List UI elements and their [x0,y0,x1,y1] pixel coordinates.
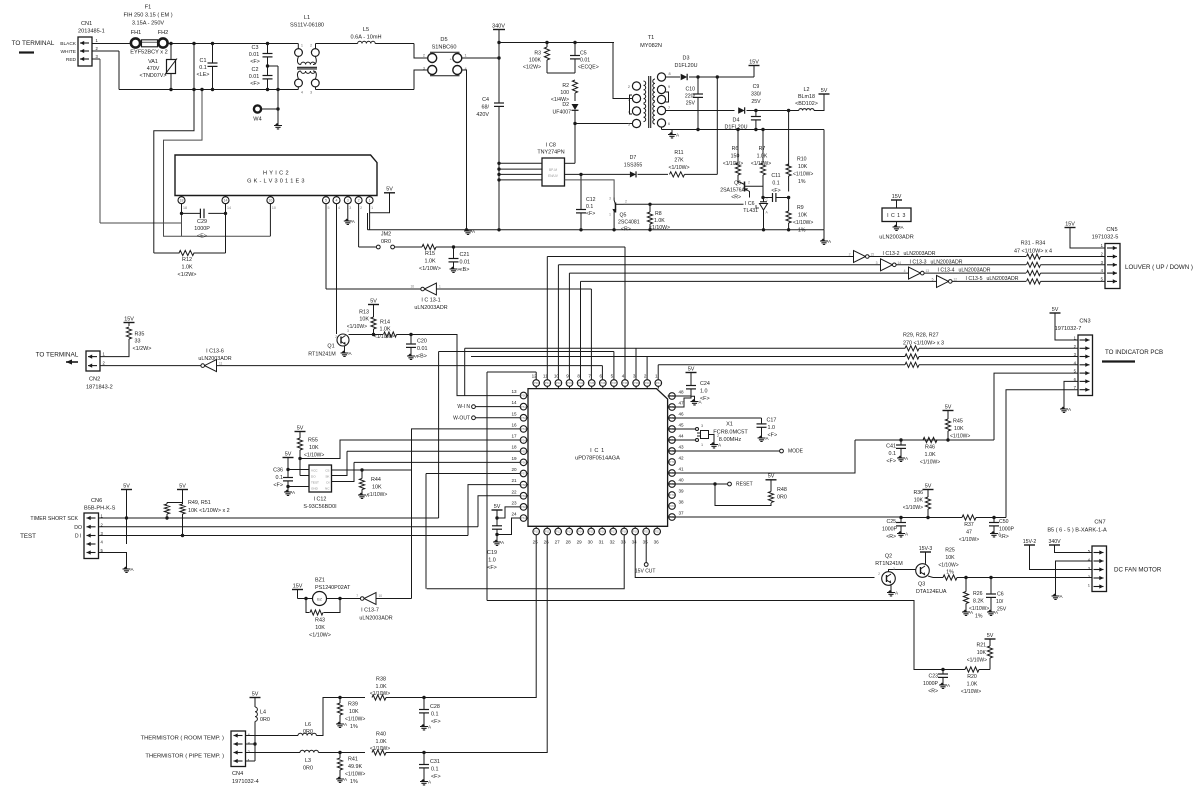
svg-text:5V: 5V [768,474,775,480]
svg-text:8: 8 [577,374,580,379]
svg-text:10: 10 [268,199,272,203]
svg-text:P14: P14 [578,530,584,534]
svg-text:<F>: <F> [487,565,497,571]
svg-text:W-I N: W-I N [457,404,470,410]
svg-text:0.1: 0.1 [276,475,284,481]
svg-text:R8: R8 [655,211,662,217]
svg-text:P15: P15 [589,530,595,534]
svg-text:0.1: 0.1 [431,712,439,718]
svg-text:P11: P11 [545,530,550,534]
svg-text:2013485-1: 2013485-1 [78,29,105,35]
svg-text:P20: P20 [644,530,650,534]
svg-text:3: 3 [876,261,878,265]
svg-text:P21: P21 [655,530,661,534]
svg-text:VA1: VA1 [148,59,158,65]
svg-text:10: 10 [379,594,383,598]
svg-text:P59: P59 [521,494,527,498]
svg-text:10K: 10K [954,426,964,432]
svg-text:40: 40 [678,478,684,483]
svg-text:22: 22 [511,489,517,494]
svg-text:3: 3 [701,424,703,428]
svg-text:<E>: <E> [197,234,207,240]
svg-text:R25: R25 [945,548,955,554]
svg-text:D7: D7 [630,155,637,161]
svg-text:L6: L6 [305,722,311,728]
svg-text:C29: C29 [197,219,207,225]
svg-text:I C 13-1: I C 13-1 [421,298,440,304]
svg-text:1.0K: 1.0K [379,327,390,333]
svg-text:14: 14 [227,206,231,210]
svg-text:<1/10W>: <1/10W> [304,453,324,459]
svg-text:P51: P51 [521,405,527,409]
svg-text:43: 43 [678,445,684,450]
svg-text:LOUVER ( UP / DOWN ): LOUVER ( UP / DOWN ) [1125,264,1193,271]
svg-text:P38: P38 [622,381,628,385]
svg-text:2: 2 [878,572,880,576]
svg-text:Q1: Q1 [327,344,334,350]
svg-text:0.01: 0.01 [417,346,428,352]
svg-text:S-93C56BD0I: S-93C56BD0I [303,504,336,510]
svg-text:1.0: 1.0 [488,558,496,564]
svg-text:8.2K: 8.2K [973,599,984,605]
svg-text:32: 32 [610,540,616,545]
svg-text:4: 4 [301,91,303,95]
svg-text:1SS355: 1SS355 [624,163,643,169]
svg-text:W-OUT: W-OUT [453,415,470,421]
svg-text:1%: 1% [798,228,806,234]
svg-text:P56: P56 [521,461,527,465]
svg-text:42: 42 [678,456,684,461]
svg-text:B5B-PH-K-S: B5B-PH-K-S [84,506,116,512]
svg-text:<1/10W>: <1/10W> [668,165,689,171]
svg-text:1971032-4: 1971032-4 [232,779,259,785]
svg-text:uLN2003ADR: uLN2003ADR [959,268,991,274]
svg-text:270 <1/10W> x 3: 270 <1/10W> x 3 [903,341,944,347]
svg-text:C21: C21 [460,252,470,258]
svg-text:10: 10 [272,206,276,210]
svg-text:BLACK: BLACK [60,41,77,47]
svg-text:TNY274PN: TNY274PN [537,150,564,156]
svg-text:5V: 5V [285,451,292,457]
svg-text:1.0K: 1.0K [967,682,978,688]
svg-text:27K: 27K [674,158,684,164]
svg-text:2: 2 [628,85,630,89]
svg-text:W4: W4 [253,117,261,123]
svg-text:10K: 10K [945,555,955,561]
svg-text:35: 35 [643,540,649,545]
svg-text:15: 15 [871,253,875,257]
svg-text:<R>: <R> [999,534,1009,540]
svg-text:2: 2 [849,253,851,257]
svg-text:0R0: 0R0 [260,717,270,723]
svg-text:18: 18 [183,206,187,210]
svg-text:<1/10W>: <1/10W> [961,689,981,695]
svg-text:FIH 250 3.15 ( EM ): FIH 250 3.15 ( EM ) [123,13,172,19]
svg-text:1%: 1% [350,724,358,730]
svg-text:I C13-7: I C13-7 [361,608,379,614]
svg-text:WHITE: WHITE [61,49,76,55]
svg-text:I C8: I C8 [546,143,556,149]
svg-text:25: 25 [533,540,539,545]
svg-text:8.00MHz: 8.00MHz [719,437,742,443]
svg-text:<1/10W>: <1/10W> [920,460,940,466]
svg-text:DO: DO [74,525,82,531]
svg-text:45: 45 [678,423,684,428]
svg-text:D2: D2 [562,102,569,108]
svg-text:C3: C3 [252,45,259,51]
svg-text:CS: CS [325,469,329,473]
svg-text:2: 2 [644,374,647,379]
svg-text:<1/10W>: <1/10W> [938,563,958,569]
svg-text:C28: C28 [430,704,440,710]
svg-text:23: 23 [511,500,517,505]
svg-text:uLN2003ADR: uLN2003ADR [904,251,936,257]
svg-text:7: 7 [356,594,358,598]
svg-text:THERMISTOR ( ROOM TEMP. ): THERMISTOR ( ROOM TEMP. ) [141,736,224,742]
svg-text:21: 21 [511,478,517,483]
svg-text:15V CUT: 15V CUT [635,569,656,575]
svg-text:<1/2W>: <1/2W> [178,272,197,278]
svg-text:<B>: <B> [417,354,427,360]
svg-text:P58: P58 [521,483,527,487]
svg-text:P55: P55 [521,449,527,453]
svg-text:30: 30 [588,540,594,545]
svg-text:5V: 5V [252,691,259,697]
svg-text:1: 1 [439,285,441,289]
svg-text:F1: F1 [145,5,152,11]
svg-text:<1/10W>: <1/10W> [950,434,970,440]
svg-text:<1/10W>: <1/10W> [419,266,441,272]
svg-text:<1/10W>: <1/10W> [903,505,923,511]
svg-text:33: 33 [135,339,141,345]
svg-text:GND: GND [311,487,319,491]
svg-text:CN2: CN2 [89,377,100,383]
svg-text:<1/10W>: <1/10W> [793,172,813,178]
svg-text:31: 31 [599,540,605,545]
svg-text:UF4007: UF4007 [553,110,572,116]
svg-text:19: 19 [511,456,517,461]
svg-text:0R0: 0R0 [303,729,313,735]
svg-text:10K: 10K [315,625,325,631]
svg-text:5V: 5V [688,366,695,372]
svg-text:<B>: <B> [460,267,470,273]
svg-text:0R0: 0R0 [777,495,787,501]
svg-text:3: 3 [423,67,425,71]
svg-text:R6: R6 [732,146,739,152]
svg-text:1.0K: 1.0K [654,218,665,224]
svg-text:0.01: 0.01 [249,52,260,58]
svg-text:4: 4 [622,374,625,379]
svg-text:470V: 470V [147,66,160,72]
svg-text:<R>: <R> [886,534,896,540]
svg-text:14: 14 [224,199,228,203]
svg-text:5V: 5V [123,483,130,489]
svg-text:RESET: RESET [736,482,753,488]
svg-text:P79: P79 [669,493,675,497]
svg-text:DI: DI [326,481,329,485]
svg-text:D I: D I [75,534,82,540]
svg-text:15V: 15V [1065,221,1075,227]
svg-text:<F>: <F> [250,59,260,65]
svg-text:P52: P52 [521,416,527,420]
svg-text:P31: P31 [545,381,551,385]
svg-text:0.01: 0.01 [249,74,260,80]
svg-text:1.0: 1.0 [768,425,776,431]
svg-text:R45: R45 [953,419,963,425]
svg-text:L4: L4 [260,710,266,716]
svg-text:3: 3 [349,206,351,210]
svg-text:16: 16 [410,285,414,289]
svg-text:3: 3 [310,91,312,95]
svg-text:10K: 10K [349,709,359,715]
svg-text:uPD78F0514AGA: uPD78F0514AGA [575,456,620,462]
svg-text:13: 13 [511,389,517,394]
svg-text:P76: P76 [669,460,675,464]
svg-text:R21: R21 [976,643,986,649]
svg-text:P13: P13 [567,530,573,534]
svg-text:3.15A - 250V: 3.15A - 250V [132,21,165,27]
svg-text:<1/2W>: <1/2W> [523,65,541,71]
svg-text:24: 24 [511,512,517,517]
svg-text:10/: 10/ [996,599,1004,605]
svg-text:R12: R12 [182,257,192,263]
svg-text:R20: R20 [967,674,977,680]
svg-text:8: 8 [669,72,671,76]
svg-text:1: 1 [465,54,467,58]
svg-text:3: 3 [609,197,611,201]
svg-text:R39: R39 [348,702,358,708]
svg-text:TL431: TL431 [743,208,758,214]
svg-text:SS11V-06180: SS11V-06180 [290,23,324,29]
svg-text:<1/10W>: <1/10W> [309,633,331,639]
svg-text:5V: 5V [179,483,186,489]
svg-text:EN/UV: EN/UV [548,174,559,178]
svg-text:1.0: 1.0 [700,389,708,395]
svg-text:P41: P41 [656,381,662,385]
svg-text:10K: 10K [977,650,987,656]
svg-text:THERMISTOR ( PIPE TEMP. ): THERMISTOR ( PIPE TEMP. ) [145,754,224,760]
svg-text:1971032-5: 1971032-5 [1092,235,1119,241]
svg-text:VCC: VCC [311,469,318,473]
svg-text:3: 3 [633,374,636,379]
svg-text:<F>: <F> [273,483,283,489]
svg-text:5: 5 [932,277,934,281]
svg-text:2: 2 [310,44,312,48]
svg-text:R44: R44 [371,477,381,483]
svg-text:5: 5 [325,199,327,203]
svg-text:2: 2 [358,199,360,203]
svg-text:R46: R46 [925,445,935,451]
svg-text:28: 28 [566,540,572,545]
svg-text:1.0K: 1.0K [375,739,386,745]
svg-text:15V: 15V [892,194,902,200]
svg-text:uLN2003ADR: uLN2003ADR [359,616,392,622]
svg-text:I C 1 3: I C 1 3 [887,213,906,219]
svg-text:CN6: CN6 [91,498,102,504]
svg-text:TO TERMINAL: TO TERMINAL [12,40,55,47]
svg-text:<BD102>: <BD102> [795,101,818,107]
svg-text:1.0K: 1.0K [757,154,768,160]
svg-text:10K: 10K [798,164,808,170]
svg-text:C19: C19 [487,550,497,556]
svg-text:10: 10 [554,374,560,379]
svg-text:0R0: 0R0 [303,766,313,772]
svg-text:1: 1 [701,443,703,447]
svg-text:1000P: 1000P [999,527,1015,533]
svg-text:DTA124EUA: DTA124EUA [916,589,947,595]
svg-text:10K: 10K [309,445,319,451]
svg-text:R41: R41 [348,757,358,763]
svg-text:<1/10W>: <1/10W> [367,492,387,498]
svg-text:C5: C5 [580,51,587,57]
svg-text:1: 1 [369,199,371,203]
svg-text:L2: L2 [804,87,810,93]
svg-text:5V: 5V [925,483,932,489]
svg-text:C9: C9 [753,84,760,90]
svg-text:R26: R26 [973,591,983,597]
svg-text:44: 44 [678,434,684,439]
svg-text:<F>: <F> [886,459,896,465]
svg-text:P54: P54 [521,438,527,442]
svg-text:<F>: <F> [700,396,710,402]
svg-text:11: 11 [543,374,548,379]
svg-text:2: 2 [717,434,719,438]
svg-text:BZ1: BZ1 [315,578,325,584]
svg-text:2: 2 [423,54,425,58]
svg-text:P19: P19 [633,530,639,534]
svg-text:15: 15 [511,411,517,416]
svg-text:G K - L V 3 0 1 1 E 3: G K - L V 3 0 1 1 E 3 [247,179,305,185]
svg-text:5V: 5V [370,298,377,304]
svg-text:P12: P12 [556,530,562,534]
svg-text:<F>: <F> [586,211,595,217]
svg-text:FH2: FH2 [158,30,169,36]
svg-text:1000P: 1000P [194,226,210,232]
svg-text:2: 2 [335,335,337,339]
svg-text:<F>: <F> [250,81,260,87]
svg-text:P34: P34 [578,381,584,385]
svg-text:I C6: I C6 [745,201,755,207]
svg-text:R2: R2 [562,83,569,89]
svg-text:15V-2: 15V-2 [1023,539,1037,545]
svg-text:P39: P39 [634,381,640,385]
svg-text:1871843-2: 1871843-2 [86,385,113,391]
svg-text:R38: R38 [376,677,386,683]
svg-text:R14: R14 [380,320,390,326]
svg-text:33: 33 [621,540,627,545]
svg-text:P16: P16 [600,530,606,534]
svg-text:Q5: Q5 [620,213,627,219]
svg-text:R48: R48 [777,487,787,493]
svg-text:uLN2003ADR: uLN2003ADR [987,276,1019,282]
svg-text:5: 5 [628,123,630,127]
svg-text:47 <1/10W> x 4: 47 <1/10W> x 4 [1014,249,1052,255]
svg-text:CN5: CN5 [1106,227,1117,233]
svg-text:R11: R11 [674,150,683,156]
svg-text:14: 14 [511,400,517,405]
svg-text:0.1: 0.1 [199,65,207,71]
svg-text:C12: C12 [586,197,596,203]
svg-text:12: 12 [954,277,958,281]
svg-text:5V: 5V [1052,307,1059,313]
svg-text:P40: P40 [645,381,651,385]
svg-text:<1/10W>: <1/10W> [793,220,813,226]
svg-text:X1: X1 [726,422,733,428]
svg-text:10K <1/10W> x 2: 10K <1/10W> x 2 [188,508,230,514]
svg-text:420V: 420V [476,112,489,118]
svg-text:10K: 10K [798,213,808,219]
svg-text:<R>: <R> [928,689,938,695]
svg-text:R3: R3 [534,51,541,57]
svg-text:2SC4081: 2SC4081 [618,220,640,226]
svg-text:R43: R43 [315,618,325,624]
svg-text:FH1: FH1 [131,30,142,36]
svg-text:16: 16 [511,422,517,427]
svg-text:5V: 5V [821,88,828,94]
svg-text:I C13-3: I C13-3 [910,259,927,265]
svg-text:R55: R55 [308,438,318,444]
svg-text:1: 1 [371,206,373,210]
svg-text:P37: P37 [611,381,617,385]
svg-text:20: 20 [511,467,517,472]
svg-text:P18: P18 [622,530,628,534]
svg-text:uLN2003ADR: uLN2003ADR [879,235,914,241]
svg-text:29: 29 [577,540,583,545]
svg-text:10K: 10K [359,317,369,323]
svg-text:0.01: 0.01 [460,260,471,266]
svg-text:P32: P32 [556,381,562,385]
svg-text:5: 5 [328,206,330,210]
svg-text:25V: 25V [751,99,761,105]
svg-text:P53: P53 [521,427,527,431]
svg-text:C6: C6 [997,592,1004,598]
svg-text:25V: 25V [997,607,1007,613]
svg-text:1%: 1% [798,179,806,185]
svg-text:uLN2003ADR: uLN2003ADR [198,356,231,362]
svg-text:R49, R51: R49, R51 [188,500,211,506]
svg-text:2: 2 [625,200,627,204]
svg-text:R7: R7 [759,146,766,152]
svg-text:MY082N: MY082N [640,43,662,49]
svg-text:D5: D5 [440,37,447,43]
svg-text:4: 4 [338,206,340,210]
svg-text:15V: 15V [293,583,303,589]
svg-text:P50: P50 [521,394,527,398]
svg-text:DC FAN MOTOR: DC FAN MOTOR [1114,567,1162,574]
svg-text:4: 4 [904,269,906,273]
svg-text:C31: C31 [430,759,440,765]
svg-text:38: 38 [678,500,684,505]
svg-text:P80: P80 [669,504,675,508]
svg-text:7: 7 [588,374,591,379]
svg-text:C17: C17 [767,418,777,424]
svg-text:1000P: 1000P [882,527,898,533]
svg-text:<1/10W>: <1/10W> [370,691,390,697]
svg-text:<1/10W>: <1/10W> [969,606,989,612]
svg-text:1000P: 1000P [923,681,939,687]
svg-text:46: 46 [678,412,684,417]
svg-text:<1/10W>: <1/10W> [959,537,979,543]
svg-text:3: 3 [347,199,349,203]
svg-text:1: 1 [609,213,611,217]
svg-text:15V: 15V [124,316,134,322]
svg-text:C2: C2 [252,67,259,73]
svg-text:34: 34 [632,540,638,545]
svg-text:2SA1576A: 2SA1576A [720,188,745,194]
svg-text:CN3: CN3 [1079,319,1090,325]
svg-text:L1: L1 [304,15,310,21]
svg-text:TEST: TEST [311,481,319,485]
